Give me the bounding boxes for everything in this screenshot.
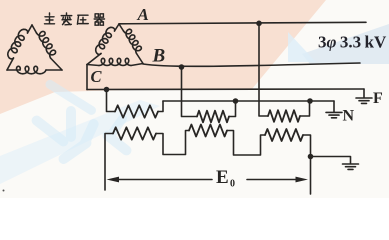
label F <box>373 90 383 107</box>
wire R1 to bus <box>158 101 163 112</box>
node C label <box>91 67 103 86</box>
resistor R1 <box>115 105 158 117</box>
resistor R4 <box>113 127 156 139</box>
label N <box>343 108 355 125</box>
label E0 <box>216 167 235 190</box>
resistor R2 <box>197 111 229 123</box>
wire R4-R5 dip <box>156 131 189 155</box>
junction chain2 output <box>308 154 314 160</box>
wire phase B <box>143 63 360 66</box>
svg-text:B: B <box>152 46 166 67</box>
label 主変圧器 (main transformer) <box>45 13 105 25</box>
resistor R3 <box>268 110 300 122</box>
junction on line A <box>256 21 262 27</box>
wire C corner drop <box>86 65 88 90</box>
wire R2 to bus <box>229 101 236 117</box>
svg-text:C: C <box>91 67 103 86</box>
wire C-drop to R1 <box>107 90 116 112</box>
resistor R6 <box>265 129 303 141</box>
junction on line B <box>179 64 185 70</box>
wire phase A <box>119 22 366 24</box>
svg-text:E: E <box>216 167 229 188</box>
speck <box>3 190 5 192</box>
node B label <box>152 46 166 67</box>
ground N <box>326 101 342 118</box>
wire to right ground <box>311 157 351 164</box>
ground (chain2 output) <box>343 164 359 169</box>
svg-text:3φ 3.3 kV: 3φ 3.3 kV <box>318 33 387 52</box>
junction neutral-R3 <box>307 98 313 104</box>
svg-text:F: F <box>373 90 383 107</box>
node A label <box>137 5 149 24</box>
label 3-phase 3.3kV <box>318 33 387 52</box>
wire A drop <box>259 23 268 116</box>
resistor R5 <box>189 125 227 137</box>
ground F <box>356 89 372 103</box>
wire R3 to bus <box>300 101 310 116</box>
wire B drop <box>182 67 198 117</box>
wire chain2 left riser <box>105 134 113 191</box>
svg-text:N: N <box>343 108 355 125</box>
dimension line E0 left <box>107 177 213 183</box>
junction neutral-R2 <box>233 98 239 104</box>
wire R5-R6 dip <box>227 131 265 156</box>
transformer T1 delta winding (main) <box>7 25 62 74</box>
dimension line E0 right <box>247 177 308 183</box>
wire phase C to F <box>87 88 364 91</box>
svg-text:0: 0 <box>230 179 235 190</box>
junction on line C <box>104 87 110 93</box>
svg-text:A: A <box>137 5 149 24</box>
wire R6 to node <box>303 135 311 157</box>
wire output drop <box>310 157 312 195</box>
transformer T2 delta winding <box>87 24 143 66</box>
wire neutral bus <box>163 100 334 102</box>
